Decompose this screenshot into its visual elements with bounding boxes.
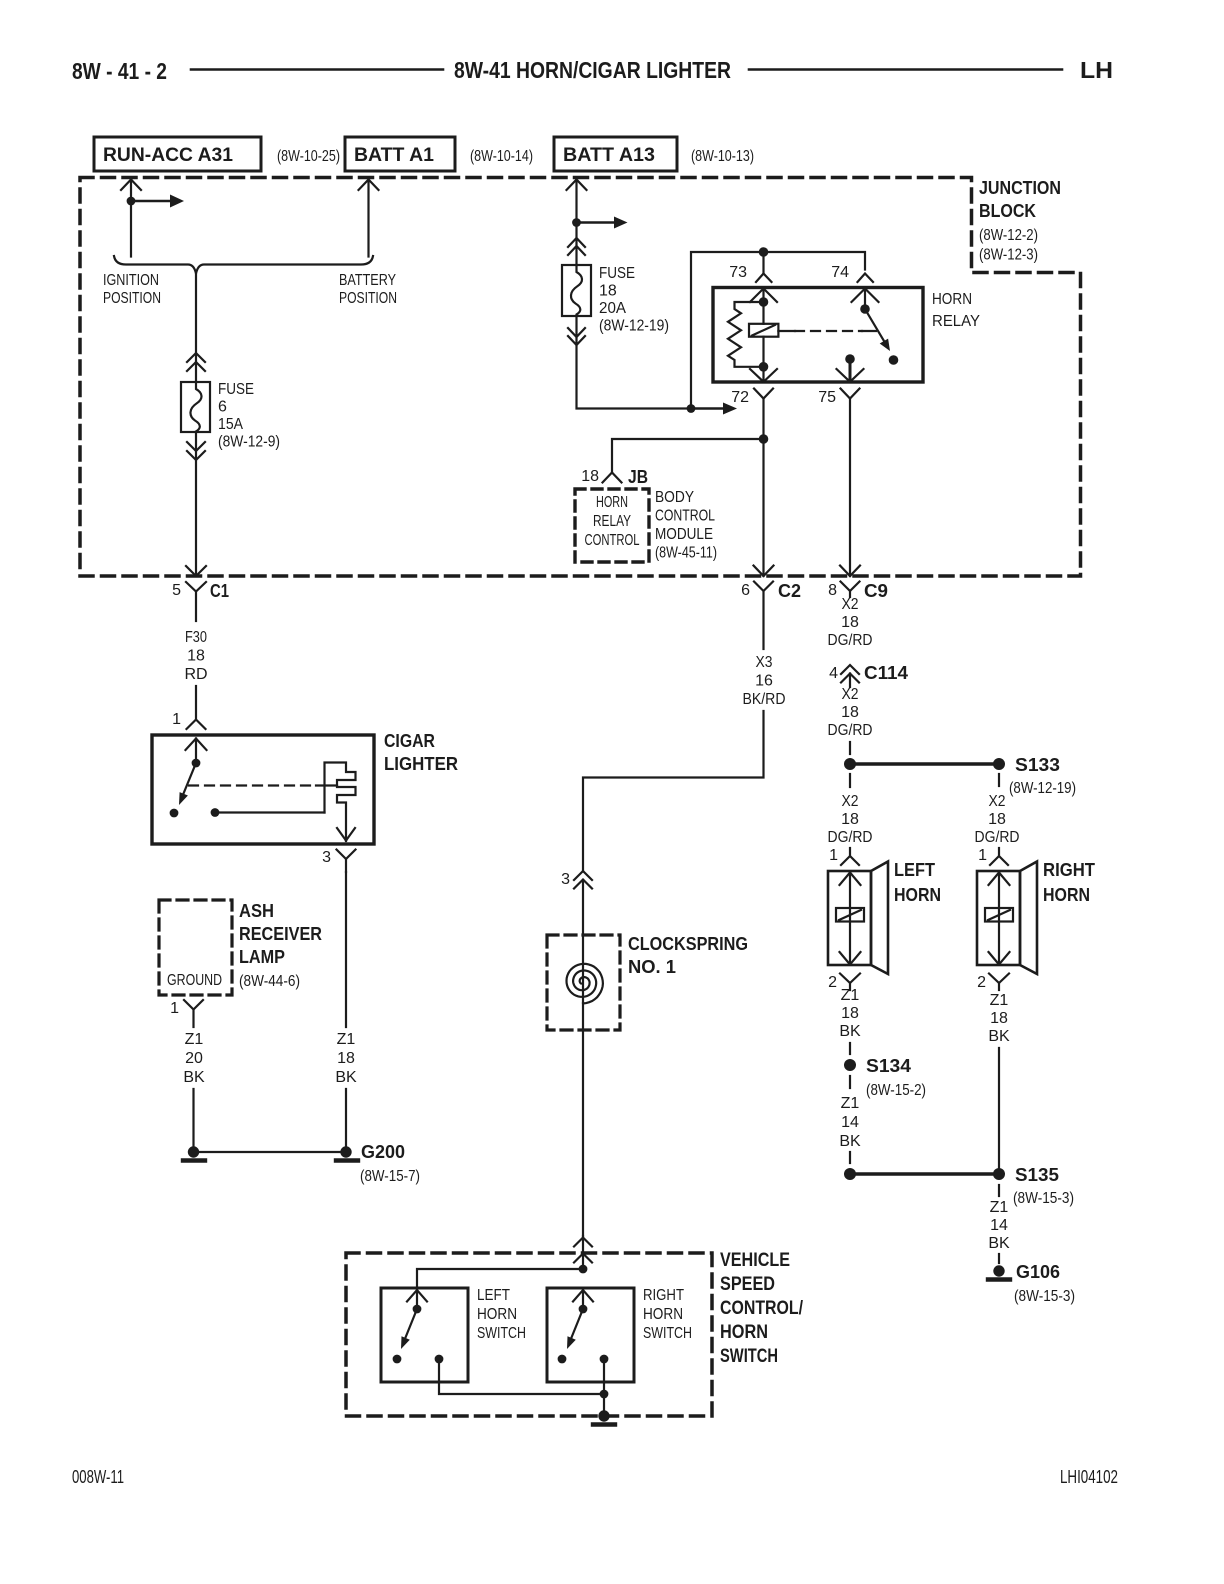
right horn element box (985, 908, 1013, 922)
wire stub above S133 (849, 742, 851, 754)
svg-text:DG/RD: DG/RD (828, 632, 873, 649)
svg-text:S133: S133 (1015, 754, 1060, 775)
node left switch contact B (435, 1355, 444, 1364)
wire S135 tie (850, 1172, 999, 1176)
wire fuse 6 to connector C1 (195, 432, 197, 576)
svg-text:BK: BK (335, 1069, 357, 1086)
header LH (1080, 57, 1113, 83)
wire RUN-ACC A31 ignition feed (121, 180, 141, 191)
svg-text:Z1: Z1 (841, 1095, 860, 1112)
cigar actuation dashed link (189, 784, 316, 786)
body control module label (655, 489, 717, 562)
svg-text:C2: C2 (778, 580, 801, 601)
wire BATT A13 feed (567, 180, 587, 191)
horn relay pin 73 socket (756, 274, 772, 283)
svg-text:X2: X2 (989, 793, 1006, 810)
left horn pin 1 internal (840, 873, 861, 886)
feed box BATT A13 (554, 137, 677, 171)
horn relay pin 72 internal (762, 367, 764, 382)
svg-text:BK: BK (988, 1028, 1010, 1045)
svg-text:BK: BK (839, 1133, 861, 1150)
svg-text:3: 3 (561, 871, 570, 888)
left horn (828, 871, 871, 965)
svg-text:20A: 20A (599, 300, 626, 317)
svg-text:RELAY: RELAY (932, 313, 980, 330)
node right switch contact A (558, 1355, 567, 1364)
svg-text:(8W-15-3): (8W-15-3) (1014, 1288, 1075, 1305)
svg-text:(8W-44-6): (8W-44-6) (239, 973, 300, 990)
right switch blade (571, 1309, 584, 1340)
node ignition feed junction (127, 197, 136, 206)
cigar heater element (325, 763, 356, 842)
svg-text:ASH: ASH (239, 900, 274, 921)
header left page number (72, 58, 167, 84)
svg-text:F30: F30 (185, 629, 207, 646)
svg-text:18: 18 (841, 811, 859, 828)
wire right switch to ground (603, 1359, 605, 1416)
svg-text:LEFT: LEFT (477, 1287, 510, 1304)
svg-text:6: 6 (741, 582, 750, 599)
svg-text:18: 18 (990, 1010, 1008, 1027)
ground horn switch (598, 1410, 609, 1421)
ground G106 (993, 1265, 1004, 1276)
node right switch pivot (579, 1305, 588, 1314)
wire off-page arrow from ignition feed (131, 200, 170, 202)
wire left switch to ground bus (439, 1359, 604, 1394)
splice S133 left node (844, 758, 856, 770)
svg-text:18: 18 (841, 614, 859, 631)
right horn pin 1 internal (989, 873, 1010, 886)
relay coil armature box (749, 324, 778, 337)
svg-text:BATTERY: BATTERY (339, 272, 396, 289)
svg-text:HORN: HORN (596, 494, 628, 511)
svg-text:SPEED: SPEED (720, 1274, 775, 1295)
wire stub below S133 left (849, 774, 851, 787)
node cigar contact left (170, 809, 179, 818)
wire X2 18 DG/RD to left horn (828, 793, 873, 846)
svg-text:74: 74 (831, 264, 849, 281)
svg-text:CONTROL/: CONTROL/ (720, 1298, 804, 1319)
right horn pin 2 (989, 974, 1009, 984)
svg-text:18: 18 (581, 468, 599, 485)
right horn (977, 871, 1020, 965)
node relay feed junction (687, 404, 696, 413)
node relay coil bottom (759, 362, 769, 372)
svg-text:Z1: Z1 (990, 1199, 1009, 1216)
horn relay pin 75 internal (849, 359, 852, 382)
svg-text:8: 8 (828, 582, 837, 599)
header rule left (191, 68, 443, 71)
svg-text:HORN: HORN (477, 1306, 517, 1323)
svg-text:18: 18 (337, 1050, 355, 1067)
svg-text:RELAY: RELAY (593, 513, 631, 530)
svg-text:SWITCH: SWITCH (720, 1346, 778, 1367)
svg-text:BLOCK: BLOCK (979, 200, 1037, 221)
header rule right (749, 68, 1062, 71)
svg-text:(8W-10-14): (8W-10-14) (470, 148, 533, 165)
svg-text:RECEIVER: RECEIVER (239, 923, 322, 944)
splice S135 (993, 1168, 1005, 1180)
node cigar switch pivot (192, 759, 201, 768)
svg-text:HORN: HORN (894, 884, 941, 905)
svg-text:BATT A1: BATT A1 (354, 145, 434, 166)
svg-text:HORN: HORN (643, 1306, 683, 1323)
connector C1 pin 5 (186, 582, 206, 592)
wire BCM horn relay control (612, 439, 764, 472)
splice S134 (844, 1059, 856, 1071)
horn relay pin 75 socket (841, 389, 860, 399)
cigar lighter (152, 735, 374, 844)
svg-text:JB: JB (628, 466, 648, 487)
svg-text:20: 20 (185, 1050, 203, 1067)
connector C9 pin 8 (840, 566, 860, 577)
svg-text:RIGHT: RIGHT (643, 1287, 684, 1304)
svg-text:1: 1 (170, 1000, 179, 1017)
ash receiver lamp dashed box (159, 900, 232, 995)
svg-text:HORN: HORN (720, 1322, 768, 1343)
JB pin 18 (603, 473, 622, 483)
node cigar contact right (211, 808, 220, 817)
vehicle speed control horn switch dashed box (346, 1253, 712, 1416)
svg-text:GROUND: GROUND (167, 972, 222, 989)
node relay NO contact (889, 355, 899, 365)
svg-text:S135: S135 (1015, 1164, 1059, 1185)
svg-text:HORN: HORN (932, 291, 972, 308)
svg-text:1: 1 (829, 847, 838, 864)
svg-text:BK/RD: BK/RD (743, 691, 786, 708)
svg-text:(8W-12-3): (8W-12-3) (979, 247, 1038, 264)
horn relay pin 74 socket (858, 274, 874, 283)
junction block label (979, 177, 1061, 264)
svg-text:CONTROL: CONTROL (655, 508, 715, 525)
wire stub above S135 tie (849, 1152, 851, 1163)
wire Z1 18 BK right horn (988, 992, 1010, 1045)
svg-text:(8W-10-25): (8W-10-25) (277, 148, 340, 165)
right horn switch pin internal (573, 1290, 593, 1302)
wire off-page arrow from BATT A13 tap (577, 221, 615, 223)
wire stub above G106 (998, 1254, 1000, 1263)
svg-text:6: 6 (218, 399, 227, 416)
svg-text:4: 4 (829, 665, 838, 682)
svg-text:BATT A13: BATT A13 (563, 145, 655, 166)
svg-text:CIGAR: CIGAR (384, 730, 435, 751)
svg-text:14: 14 (841, 1114, 859, 1131)
wire relay pin 72 to C2 (762, 399, 764, 577)
svg-text:BK: BK (839, 1023, 861, 1040)
svg-text:(8W-15-3): (8W-15-3) (1013, 1190, 1074, 1207)
node relay pin 75 contact (845, 354, 855, 364)
svg-text:16: 16 (755, 673, 773, 690)
left horn switch pin internal (407, 1290, 427, 1302)
left horn pin 2 (840, 974, 860, 984)
svg-text:SWITCH: SWITCH (477, 1325, 526, 1342)
svg-text:X2: X2 (842, 686, 859, 703)
wire off-page arrow from relay feed (691, 407, 723, 409)
svg-text:2: 2 (828, 974, 837, 991)
ground G200 left lug (188, 1146, 199, 1157)
wire X2 18 DG/RD upper (828, 596, 873, 649)
wire BATT A1 battery feed (359, 180, 379, 191)
svg-text:(8W-12-19): (8W-12-19) (599, 318, 669, 335)
svg-text:8W - 41 - 2: 8W - 41 - 2 (72, 58, 167, 84)
svg-text:NO. 1: NO. 1 (628, 956, 676, 977)
svg-text:(8W-12-2): (8W-12-2) (979, 227, 1038, 244)
svg-text:FUSE: FUSE (599, 265, 635, 282)
clockspring coil spiral (567, 964, 603, 1004)
svg-text:(8W-15-7): (8W-15-7) (360, 1168, 420, 1185)
ground G200 (340, 1146, 351, 1157)
right horn pin 1 (998, 848, 1000, 856)
cigar lighter pin 3 (337, 850, 356, 860)
svg-text:15A: 15A (218, 416, 243, 433)
connector C114 pin 4 (841, 665, 859, 674)
junction block dashed outline (80, 178, 1081, 577)
svg-text:5: 5 (172, 582, 181, 599)
svg-text:C114: C114 (864, 662, 909, 683)
svg-text:G200: G200 (361, 1141, 405, 1162)
clockspring no. 1 dashed box (547, 935, 620, 1030)
svg-text:RUN-ACC A31: RUN-ACC A31 (103, 145, 233, 166)
svg-text:LHI04102: LHI04102 (1060, 1467, 1118, 1487)
ash receiver lamp pin 1 (184, 1000, 203, 1010)
svg-text:SWITCH: SWITCH (643, 1325, 692, 1342)
svg-text:X2: X2 (842, 793, 859, 810)
horn relay pin 72 socket (754, 389, 773, 399)
header title (454, 57, 731, 83)
svg-text:CONTROL: CONTROL (585, 532, 640, 549)
svg-text:POSITION: POSITION (339, 290, 397, 307)
footer sheet number (72, 1467, 1118, 1487)
feed box BATT A1 (345, 137, 455, 171)
svg-text:Z1: Z1 (841, 987, 860, 1004)
svg-text:S134: S134 (866, 1055, 912, 1076)
svg-text:Z1: Z1 (337, 1031, 356, 1048)
relay switch blade (865, 309, 884, 341)
svg-text:1: 1 (978, 847, 987, 864)
cigar switch blade (183, 763, 197, 796)
svg-text:C1: C1 (210, 580, 229, 601)
wire right horn to S135 (998, 1048, 1000, 1174)
node BCM control tap (759, 434, 769, 444)
svg-text:C9: C9 (864, 580, 888, 601)
wire fuse 18 to horn relay feed (568, 328, 585, 337)
svg-text:2: 2 (977, 974, 986, 991)
wire X3 16 BK/RD (743, 654, 786, 708)
wire F30 18 RD (184, 629, 207, 683)
svg-text:IGNITION: IGNITION (103, 272, 159, 289)
wire S133 to right horn branch (998, 774, 1000, 786)
svg-text:BK: BK (183, 1069, 205, 1086)
horn relay box (713, 288, 923, 383)
cigar lighter pin 1 (187, 720, 206, 730)
svg-text:14: 14 (990, 1217, 1008, 1234)
node BATT A13 tap (572, 218, 581, 227)
wire stub below S134 (849, 1076, 851, 1088)
svg-text:(8W-12-9): (8W-12-9) (218, 434, 280, 451)
wire X2 18 DG/RD mid (828, 686, 873, 739)
svg-text:LIGHTER: LIGHTER (384, 753, 458, 774)
svg-text:LH: LH (1080, 57, 1113, 83)
svg-text:75: 75 (818, 389, 836, 406)
fuse 6 15A (181, 382, 210, 432)
horn relay pin 74 internal (852, 289, 879, 303)
svg-text:FUSE: FUSE (218, 381, 254, 398)
node ground bus junction (600, 1390, 609, 1399)
svg-text:DG/RD: DG/RD (828, 722, 873, 739)
wire S133 tie (850, 762, 999, 766)
wire stub below S135 (998, 1185, 1000, 1196)
svg-text:BODY: BODY (655, 489, 694, 506)
node right switch contact B (600, 1355, 609, 1364)
svg-text:JUNCTION: JUNCTION (979, 177, 1061, 198)
svg-text:DG/RD: DG/RD (975, 829, 1020, 846)
svg-text:3: 3 (322, 849, 331, 866)
svg-text:CLOCKSPRING: CLOCKSPRING (628, 933, 748, 954)
fuse 18 20A (562, 265, 591, 316)
wire contact to heater element (215, 811, 325, 813)
right horn switch box (547, 1288, 634, 1382)
svg-text:18: 18 (841, 1005, 859, 1022)
svg-text:18: 18 (599, 283, 617, 300)
left horn pin 1 (849, 848, 851, 856)
svg-text:8W-41 HORN/CIGAR LIGHTER: 8W-41 HORN/CIGAR LIGHTER (454, 57, 731, 83)
feed box RUN-ACC A31 (94, 137, 261, 171)
node left switch pivot (413, 1305, 422, 1314)
wire clockspring feed (582, 880, 584, 1236)
connector pin 3 clockspring (574, 871, 592, 880)
splice S133 (993, 758, 1005, 770)
svg-text:RIGHT: RIGHT (1043, 859, 1096, 880)
node relay pin 73 tap (759, 247, 769, 257)
wire relay supply bus (691, 252, 865, 409)
node feed merge brace (114, 256, 373, 274)
svg-text:X2: X2 (842, 596, 859, 613)
wire stub above S134 (849, 1043, 851, 1054)
svg-text:MODULE: MODULE (655, 526, 713, 543)
wire X2 18 DG/RD to right horn (975, 793, 1020, 846)
horn relay pin 73 internal (750, 289, 777, 303)
svg-text:POSITION: POSITION (103, 290, 161, 307)
wire Z1 20 BK (183, 1031, 205, 1086)
BCM horn relay control dashed box (575, 489, 649, 562)
node relay common (860, 304, 870, 314)
wire Z1 18 BK left horn (839, 987, 861, 1040)
relay coil resistor (728, 302, 764, 367)
svg-text:18: 18 (988, 811, 1006, 828)
wire to left horn switch (417, 1269, 583, 1288)
svg-text:VEHICLE: VEHICLE (720, 1250, 790, 1271)
svg-text:(8W-45-11): (8W-45-11) (655, 545, 717, 562)
svg-text:LEFT: LEFT (894, 859, 936, 880)
node relay coil top (759, 297, 769, 307)
svg-text:008W-11: 008W-11 (72, 1467, 124, 1487)
svg-text:Z1: Z1 (185, 1031, 204, 1048)
relay actuation dashed link (778, 330, 795, 332)
wire Z1 14 BK right (988, 1199, 1010, 1252)
svg-text:72: 72 (731, 389, 749, 406)
svg-text:X3: X3 (756, 654, 773, 671)
svg-text:1: 1 (172, 711, 181, 728)
svg-text:(8W-15-2): (8W-15-2) (866, 1082, 926, 1099)
node horn switch feed junction (582, 1236, 584, 1269)
svg-text:HORN: HORN (1043, 884, 1090, 905)
svg-text:(8W-12-19): (8W-12-19) (1009, 780, 1076, 797)
wire Z1 18 BK cigar ground (345, 872, 347, 1027)
splice S135 left node (844, 1168, 856, 1180)
svg-text:73: 73 (729, 264, 747, 281)
connector into horn switch (574, 1238, 592, 1247)
node left switch contact A (393, 1355, 402, 1364)
left horn element box (836, 908, 864, 922)
left switch blade (405, 1309, 418, 1340)
svg-text:(8W-10-13): (8W-10-13) (691, 148, 754, 165)
cigar lighter pin 1 internal (186, 739, 207, 751)
svg-text:BK: BK (988, 1235, 1010, 1252)
wire ground tie (194, 1151, 347, 1153)
svg-text:DG/RD: DG/RD (828, 829, 873, 846)
wire Z1 14 BK left (839, 1095, 861, 1150)
wire brace to fuse 6 (195, 274, 197, 383)
svg-text:RD: RD (184, 666, 207, 683)
svg-text:LAMP: LAMP (239, 946, 285, 967)
left horn switch box (381, 1288, 468, 1382)
svg-text:18: 18 (187, 648, 205, 665)
svg-text:18: 18 (841, 704, 859, 721)
svg-text:G106: G106 (1016, 1261, 1060, 1282)
connector C2 pin 6 (754, 566, 774, 577)
svg-text:Z1: Z1 (990, 992, 1009, 1009)
